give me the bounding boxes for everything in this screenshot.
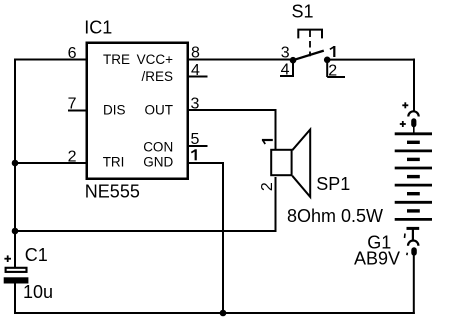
wire pin1 GND horizontal [188, 162, 224, 164]
wire pin8 to switch [188, 59, 293, 61]
wire speaker pin2 vertical [275, 177, 277, 230]
capacitor C1 bottom plate [4, 277, 29, 283]
svg-text:OUT: OUT [145, 102, 174, 117]
wire pin2 horizontal [14, 162, 87, 164]
op-amp/timer IC U1 body (IC1 NE555) [87, 43, 188, 179]
pin number 1 [191, 149, 197, 160]
battery G1 plus sign upper [402, 102, 408, 108]
pin number 4 [191, 62, 200, 79]
switch pin number 3 [281, 45, 290, 62]
junction node at C1 top [12, 228, 19, 235]
wire switch to battery horizontal [327, 59, 415, 61]
switch S1 lever [293, 51, 324, 61]
battery G1 bottom snap tick [404, 234, 407, 239]
svg-text:/RES: /RES [141, 69, 173, 84]
switch pin number 1 [330, 46, 336, 57]
switch pin 3-4 tie vertical [292, 60, 294, 76]
switch S1 reference label [292, 1, 314, 21]
battery G1 short plate 3 [407, 175, 420, 178]
svg-text:C1: C1 [25, 245, 48, 265]
battery G1 top snap arc [408, 111, 418, 116]
pin number 3 [191, 96, 200, 113]
wire battery bottom vertical [413, 255, 415, 315]
svg-text:CON: CON [143, 140, 173, 155]
battery G1 top snap stud [411, 118, 416, 133]
capacitor C1 top plate [6, 268, 27, 272]
svg-text:DIS: DIS [103, 102, 126, 117]
svg-text:NE555: NE555 [85, 182, 140, 202]
switch pin number 4 [281, 62, 290, 79]
wire pin6 horizontal [14, 59, 87, 61]
battery G1 long plate 5 [395, 201, 432, 204]
battery G1 long plate 4 [395, 184, 432, 187]
pin number 8 [191, 45, 200, 62]
SP1 reference label [316, 174, 350, 194]
battery G1 bottom stud tick [406, 253, 409, 256]
switch S1 left contact node [290, 57, 297, 64]
wire pin3 OUT horizontal [188, 109, 277, 111]
IC pin name TRE [103, 52, 130, 67]
svg-text:VCC+: VCC+ [137, 52, 174, 67]
IC pin name TRI [103, 155, 125, 170]
svg-text:IC1: IC1 [84, 18, 112, 38]
C1 reference label [25, 245, 48, 265]
switch pin 4 stub [280, 75, 294, 77]
IC pin name DIS [103, 102, 126, 117]
wire pin5 stub [188, 145, 208, 147]
speaker SP1 box [271, 150, 291, 175]
AB9V value label [354, 249, 400, 269]
wire pin1 GND vertical [222, 162, 224, 314]
switch pin number 2 [328, 63, 337, 80]
wire capacitor to bottom rail [14, 282, 16, 314]
wire left rail vertical [14, 59, 16, 268]
wire pin4 stub [188, 76, 208, 78]
switch pin 1-2 tie vertical [326, 60, 328, 77]
battery G1 short plate 2 [407, 158, 420, 161]
battery G1 plus sign lower [400, 121, 406, 127]
wire pin7 stub [68, 110, 87, 112]
speaker SP1 cone [292, 130, 310, 197]
pin number 6 [68, 45, 77, 62]
switch S1 actuator dashed link [309, 31, 311, 57]
wire bottom-of-speaker horizontal [14, 230, 277, 232]
battery G1 bottom snap arc [408, 240, 418, 245]
junction node at TRI pin2 [12, 160, 19, 167]
IC pin name /RES [141, 69, 173, 84]
IC pin name GND [143, 155, 173, 170]
battery G1 long plate 2 [395, 149, 432, 152]
battery G1 short plate 5 [407, 209, 420, 212]
IC pin name CON [143, 140, 173, 155]
svg-text:SP1: SP1 [316, 174, 350, 194]
svg-text:10u: 10u [23, 282, 53, 302]
switch pin 2 stub [327, 76, 345, 78]
battery G1 bottom snap stud [411, 247, 417, 255]
switch S1 right contact node [324, 57, 331, 64]
wire bottom rail [14, 312, 415, 314]
battery G1 long plate 6 [395, 218, 432, 221]
wire speaker pin1 vertical [275, 109, 277, 150]
pin number 5 [191, 131, 200, 148]
svg-text:2: 2 [259, 182, 276, 191]
IC pin name OUT [145, 102, 174, 117]
pin number 2 [68, 148, 77, 165]
svg-text:3: 3 [281, 45, 290, 62]
battery G1 short plate 1 [407, 141, 420, 144]
svg-text:S1: S1 [292, 1, 314, 21]
NE555 value label [85, 182, 140, 202]
junction node at bottom rail GND [220, 310, 227, 317]
switch S1 actuator bracket [298, 30, 322, 39]
svg-text:TRE: TRE [103, 52, 130, 67]
pin number 7 [68, 95, 77, 112]
IC1 reference label [84, 18, 112, 38]
svg-text:GND: GND [143, 155, 173, 170]
speaker pin number 1 (rotated) [262, 139, 273, 144]
svg-text:TRI: TRI [103, 155, 125, 170]
svg-text:AB9V: AB9V [354, 249, 400, 269]
capacitor C1 plus sign [4, 255, 11, 262]
battery G1 long plate 1 [395, 132, 432, 135]
svg-text:8Ohm 0.5W: 8Ohm 0.5W [287, 206, 383, 226]
IC pin name VCC+ [137, 52, 174, 67]
10u value label [23, 282, 53, 302]
G1 reference label [367, 232, 391, 252]
8Ohm 0.5W value label [287, 206, 383, 226]
battery G1 long plate 3 [395, 167, 432, 170]
speaker pin number 2 (rotated) [259, 182, 276, 191]
wire battery top vertical [413, 59, 415, 111]
battery G1 short plate 4 [407, 192, 420, 195]
battery G1 bottom snap T [407, 228, 420, 240]
